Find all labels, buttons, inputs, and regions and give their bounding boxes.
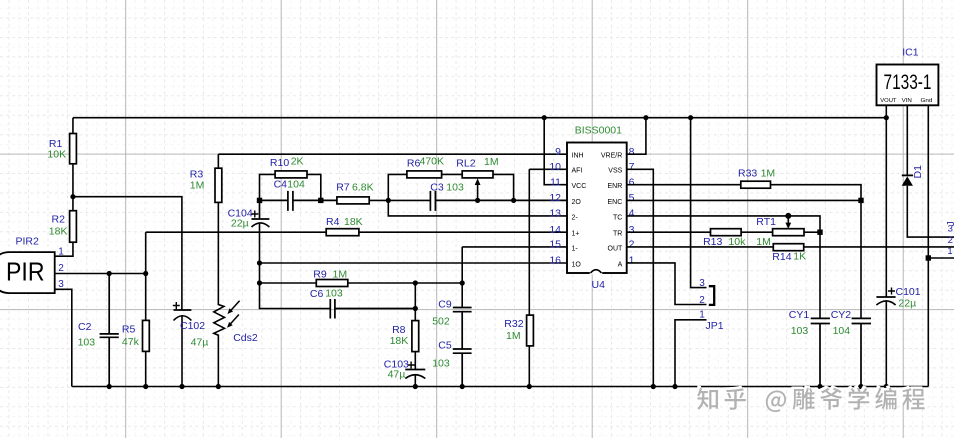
wire VCC pin11 [544, 118, 567, 185]
svg-text:TC: TC [613, 214, 622, 221]
potentiometer RT1 [773, 229, 804, 236]
wire JP1 pin1 to ground [675, 320, 707, 387]
svg-text:INH: INH [572, 153, 584, 160]
wire VOUT down to C101 [885, 118, 887, 297]
svg-text:R32: R32 [504, 318, 523, 330]
wire VRE/R pin8 to rail [627, 118, 646, 155]
svg-text:103: 103 [432, 358, 450, 370]
svg-text:R10: R10 [270, 157, 289, 169]
svg-text:6.8K: 6.8K [352, 182, 374, 194]
svg-text:IC1: IC1 [902, 47, 919, 59]
svg-text:VOUT: VOUT [880, 98, 897, 104]
svg-text:TR: TR [613, 231, 622, 238]
svg-text:1: 1 [629, 255, 635, 267]
node ground rail / R32 [527, 384, 532, 389]
svg-text:103: 103 [446, 182, 464, 194]
wire J pin1 [928, 257, 954, 259]
svg-text:10: 10 [549, 161, 561, 173]
svg-text:470K: 470K [420, 156, 445, 168]
regulator IC1 7133-1 body [877, 65, 939, 106]
node R9 left junction [257, 280, 262, 285]
node VCC rail junction [542, 115, 547, 120]
wire ENC pin5 [627, 199, 861, 201]
svg-text:502: 502 [432, 316, 450, 328]
Cds2 light arrow 2 [229, 315, 239, 326]
wire R33 node to CY2 [860, 200, 862, 318]
svg-text:C5: C5 [438, 340, 452, 352]
svg-text:CY1: CY1 [789, 309, 810, 321]
resistor R8 [414, 283, 416, 321]
resistor R1 [72, 118, 74, 134]
resistor R14 [773, 244, 803, 251]
capacitor C4 [260, 191, 337, 211]
resistor R3 [217, 154, 219, 168]
svg-text:VSS: VSS [608, 168, 622, 175]
node GND/J1 junction [926, 255, 931, 260]
svg-text:R6: R6 [407, 158, 421, 170]
svg-text:103: 103 [325, 288, 343, 300]
svg-text:J: J [946, 221, 954, 226]
svg-text:A: A [618, 261, 623, 268]
resistor R2 [70, 211, 77, 243]
resistor R32 [529, 169, 567, 315]
resistor R7 [337, 197, 369, 204]
svg-text:R14: R14 [772, 251, 791, 263]
svg-text:AFI: AFI [572, 168, 583, 175]
svg-text:1O: 1O [572, 261, 582, 268]
diode D1 [902, 174, 913, 176]
svg-text:1-: 1- [572, 245, 579, 252]
potentiometer RL2 [462, 171, 493, 178]
node RL2 wiper junction [475, 198, 480, 203]
svg-text:103: 103 [78, 337, 96, 349]
svg-text:BISS0001: BISS0001 [575, 125, 622, 137]
svg-text:15: 15 [549, 239, 561, 251]
wire GND pin to ground rail [927, 105, 929, 386]
wire 1- pin15 [462, 247, 567, 308]
op-amp IC U4 BISS0001 body [567, 143, 627, 274]
capacitor C104 (electrolytic) [252, 200, 270, 219]
svg-text:2: 2 [629, 239, 635, 251]
connector PIR2 body [0, 252, 55, 293]
capacitor C5 [453, 349, 472, 387]
svg-text:8: 8 [629, 146, 635, 158]
node R8 top junction [413, 280, 418, 285]
svg-text:ENR: ENR [608, 183, 623, 190]
svg-text:VCC: VCC [572, 183, 587, 190]
wire VIN to D1 [906, 105, 908, 175]
node PIR2/C2 junction [107, 271, 112, 276]
svg-text:3: 3 [58, 279, 64, 290]
svg-text:C3: C3 [430, 182, 444, 194]
svg-text:9: 9 [555, 146, 561, 158]
svg-text:C9: C9 [438, 299, 452, 311]
svg-text:12: 12 [549, 192, 561, 204]
svg-text:1: 1 [947, 246, 952, 257]
watermark 知乎 @雕爷学编程 (white emboss) [695, 386, 923, 410]
node B (R10/C4 right) [318, 198, 323, 203]
svg-text:47k: 47k [122, 336, 140, 348]
node PIR2/R5 junction [143, 271, 148, 276]
svg-text:1M: 1M [484, 156, 499, 168]
node R1/R2 junction [70, 194, 75, 199]
resistor R4 [326, 229, 359, 236]
svg-text:C4: C4 [274, 179, 288, 191]
node RT1 right junction [817, 230, 822, 235]
node ground rail / C5 [460, 384, 465, 389]
node VOUT rail junction [884, 115, 889, 120]
node ground rail / CY1 [817, 384, 822, 389]
svg-text:JP1: JP1 [706, 320, 724, 332]
jumper JP1 bracket [709, 286, 714, 305]
node ground rail / C103 [413, 384, 418, 389]
wire OUT pin2 [627, 246, 774, 248]
node ground rail / VSS [651, 384, 656, 389]
node ground rail / JP1 [672, 384, 677, 389]
resistor R10 [260, 174, 276, 200]
svg-text:OUT: OUT [608, 245, 624, 252]
svg-text:18K: 18K [344, 216, 363, 228]
svg-text:ENC: ENC [608, 199, 623, 206]
svg-text:104: 104 [833, 325, 851, 337]
node RL2 right junction [511, 198, 516, 203]
svg-text:R5: R5 [122, 324, 136, 336]
wire 2- pin13 [388, 200, 567, 216]
svg-text:1M: 1M [506, 330, 521, 342]
svg-text:47µ: 47µ [191, 337, 209, 349]
node ground rail / C2 [107, 384, 112, 389]
capacitor C101 (electrolytic) [876, 296, 895, 298]
resistor R9 [260, 282, 317, 284]
wire C104 node down to C6 [260, 263, 331, 309]
wire ground bottom rail [72, 386, 929, 388]
wire 1O pin16 [260, 262, 568, 264]
node RT1 wiper junction [785, 213, 791, 219]
RT1 wiper arrow [787, 216, 789, 224]
svg-text:14: 14 [549, 224, 561, 236]
wire VCC top rail [73, 117, 886, 119]
svg-text:1M: 1M [190, 180, 205, 192]
svg-text:1M: 1M [333, 269, 348, 281]
node pin8 rail junction [643, 115, 648, 120]
svg-text:PIR2: PIR2 [16, 235, 40, 247]
resistor R6 [388, 174, 407, 200]
node pin14/PIR2 junction wire [145, 232, 147, 273]
capacitor C3 [430, 191, 567, 211]
svg-text:RT1: RT1 [756, 216, 776, 228]
capacitor C6 [330, 299, 415, 319]
svg-text:Cds2: Cds2 [233, 332, 258, 344]
svg-text:2: 2 [58, 263, 64, 274]
node ground rail / R5 [143, 384, 148, 389]
svg-text:13: 13 [549, 208, 561, 220]
resistor R13 [711, 229, 742, 236]
svg-text:1+: 1+ [572, 231, 580, 238]
node R9/C9 junction [460, 280, 465, 285]
svg-text:18K: 18K [49, 226, 68, 238]
node R8/C6 junction [413, 306, 418, 311]
svg-text:1K: 1K [793, 251, 806, 263]
svg-text:4: 4 [629, 208, 635, 220]
wire VOUT to rail [885, 105, 887, 117]
svg-text:D1: D1 [912, 165, 924, 179]
svg-text:C2: C2 [78, 321, 92, 333]
svg-text:R7: R7 [336, 182, 350, 194]
svg-text:104: 104 [287, 179, 305, 191]
svg-text:5: 5 [629, 192, 635, 204]
capacitor C9 [453, 308, 472, 350]
svg-text:R33: R33 [738, 167, 757, 179]
svg-text:10K: 10K [47, 149, 66, 161]
wire PIR pin 2 [55, 273, 146, 275]
capacitor C102 (electrolytic) [174, 309, 192, 311]
wire 1+ pin14 [146, 231, 327, 233]
node ground rail / C101 [884, 384, 889, 389]
svg-text:16: 16 [549, 255, 561, 267]
svg-text:3: 3 [629, 224, 635, 236]
wire TC pin4 [627, 216, 820, 232]
capacitor CY1 [811, 318, 830, 386]
node A (C104/R10/C4) [257, 198, 262, 203]
svg-text:103: 103 [791, 325, 809, 337]
RL2 wiper arrow [477, 184, 479, 201]
svg-text:2: 2 [699, 295, 705, 306]
svg-text:6: 6 [629, 177, 635, 189]
capacitor C2 [100, 274, 119, 387]
svg-text:7133-1: 7133-1 [884, 71, 932, 94]
wire A pin1 to JP1 pin2 [627, 263, 707, 305]
svg-text:2-: 2- [572, 214, 579, 221]
node JP1 vcc rail junction [688, 115, 693, 120]
wire RT1/CY1 to ground [819, 232, 821, 318]
svg-text:2: 2 [948, 235, 953, 246]
svg-text:47µ: 47µ [388, 368, 406, 380]
wire R1-R2 node to C102 [73, 197, 182, 310]
node C (R7/R6/C3/pin13) [386, 198, 391, 203]
node R33/pin5 junction [858, 198, 863, 203]
svg-text:R4: R4 [326, 216, 340, 228]
wire ENR pin6 [627, 184, 741, 186]
svg-text:2K: 2K [291, 156, 304, 168]
node C104/pin16 junction [257, 260, 262, 265]
svg-text:VRE/R: VRE/R [601, 153, 622, 160]
node ground rail / Cds2 [216, 384, 221, 389]
wire TR pin3 [627, 231, 711, 233]
svg-text:C102: C102 [180, 320, 205, 332]
svg-text:2O: 2O [572, 199, 582, 206]
svg-text:C101: C101 [896, 286, 921, 298]
node ground rail / C102 [179, 384, 184, 389]
capacitor C103 (electrolytic) [405, 369, 425, 371]
svg-text:PIR: PIR [6, 257, 45, 287]
svg-text:7: 7 [629, 161, 635, 173]
svg-text:Gnd: Gnd [921, 98, 933, 104]
wire VSS pin7 to ground [627, 169, 654, 386]
svg-text:18K: 18K [390, 335, 409, 347]
svg-text:R9: R9 [313, 269, 327, 281]
wire PIR pin 3 to ground [55, 289, 72, 386]
svg-text:R2: R2 [52, 214, 66, 226]
svg-text:CY2: CY2 [831, 309, 852, 321]
svg-text:22µ: 22µ [231, 218, 249, 230]
resistor R33 [741, 181, 771, 188]
svg-text:VIN: VIN [902, 98, 912, 104]
svg-text:22µ: 22µ [898, 298, 916, 310]
capacitor CY2 [852, 318, 871, 386]
svg-text:U4: U4 [592, 279, 606, 291]
wire VCC to JP1 pin3 [691, 118, 707, 288]
resistor R5 [145, 274, 147, 321]
Cds2 light arrow 1 [230, 301, 240, 312]
photoresistor Cds2 [214, 202, 225, 386]
svg-text:1M: 1M [761, 167, 776, 179]
wire INH pin9 [218, 153, 567, 155]
watermark 知乎 @雕爷学编程 (gray) [697, 388, 925, 412]
svg-text:C6: C6 [310, 288, 324, 300]
svg-text:1: 1 [58, 247, 64, 258]
svg-text:3: 3 [699, 278, 705, 289]
svg-text:11: 11 [550, 176, 561, 188]
svg-text:RL2: RL2 [456, 158, 475, 170]
node ground rail / CY2 [858, 384, 863, 389]
